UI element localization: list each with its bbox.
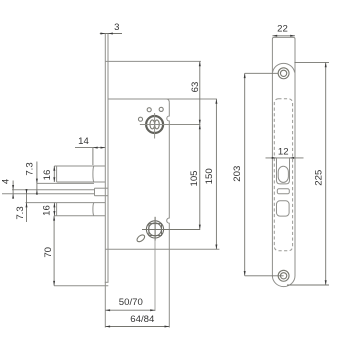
svg-text:64/84: 64/84 bbox=[130, 314, 155, 325]
svg-text:16: 16 bbox=[42, 205, 53, 216]
svg-text:14: 14 bbox=[78, 136, 89, 147]
svg-text:50/70: 50/70 bbox=[119, 297, 143, 308]
svg-text:16: 16 bbox=[42, 170, 53, 181]
svg-text:12: 12 bbox=[278, 147, 289, 158]
svg-text:7.3: 7.3 bbox=[25, 162, 36, 175]
svg-text:70: 70 bbox=[43, 247, 54, 258]
svg-text:105: 105 bbox=[189, 170, 200, 186]
svg-text:203: 203 bbox=[232, 166, 243, 182]
svg-text:3: 3 bbox=[114, 22, 119, 33]
svg-text:63: 63 bbox=[190, 82, 201, 93]
svg-text:7.3: 7.3 bbox=[15, 206, 26, 219]
svg-text:22: 22 bbox=[277, 23, 288, 34]
svg-text:150: 150 bbox=[204, 168, 215, 184]
svg-text:4: 4 bbox=[1, 178, 12, 184]
svg-text:225: 225 bbox=[313, 170, 324, 186]
